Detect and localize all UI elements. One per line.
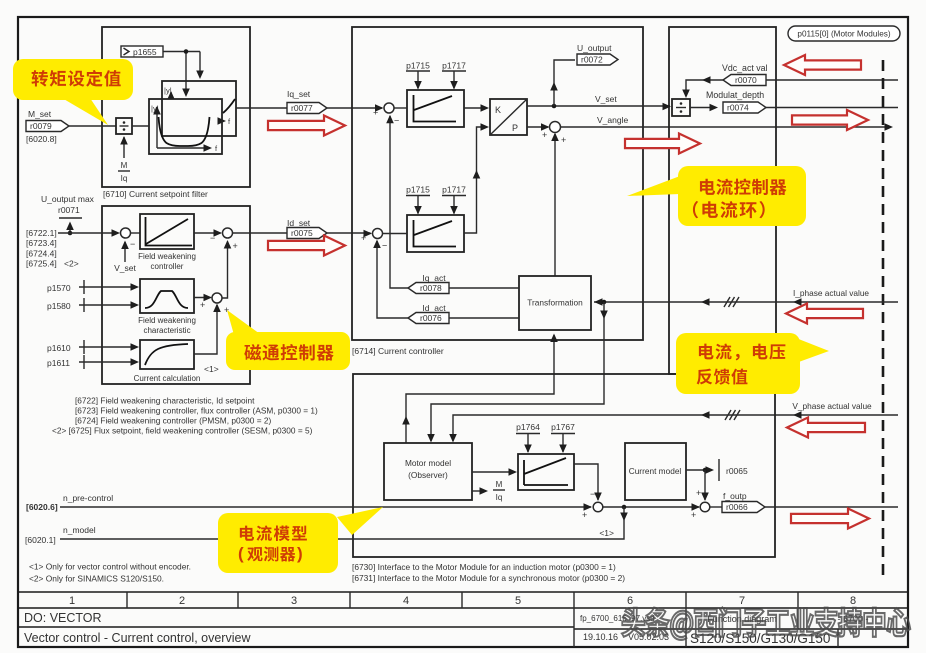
svg-text:r0074: r0074 xyxy=(727,103,749,113)
summing point S6 angle xyxy=(542,122,566,146)
svg-text:r0079: r0079 xyxy=(30,121,52,131)
svg-text:Current model: Current model xyxy=(629,466,682,476)
svg-text:[6723.4]: [6723.4] xyxy=(26,238,57,248)
adaptation block xyxy=(518,454,574,490)
red arrow at Id_set xyxy=(268,236,345,256)
connector p1655 xyxy=(121,46,163,57)
svg-text:3: 3 xyxy=(291,595,297,607)
label p0115[0] motor modules xyxy=(788,26,900,41)
svg-text:V_set: V_set xyxy=(114,263,136,273)
svg-text:Vdc_act val: Vdc_act val xyxy=(722,63,768,73)
connector Vdc_act_val r0070 xyxy=(722,63,768,86)
wire transformation to r0078 to S4 xyxy=(386,115,519,288)
svg-text:I_phase actual value: I_phase actual value xyxy=(793,288,869,298)
summing point S7 xyxy=(593,502,603,512)
svg-text:S120/S150/G130/G150: S120/S150/G130/G150 xyxy=(690,631,830,646)
notes 6730/6731 xyxy=(352,562,625,583)
svg-text:r0070: r0070 xyxy=(735,75,757,85)
block U3 [6714] current controller xyxy=(352,27,643,356)
wire S7 to S8 xyxy=(603,503,700,520)
svg-text:8: 8 xyxy=(850,595,856,607)
svg-text:Field weakening: Field weakening xyxy=(138,316,196,325)
svg-text:p1717: p1717 xyxy=(442,61,466,71)
svg-text:+: + xyxy=(361,233,366,243)
svg-text:+: + xyxy=(373,108,378,118)
svg-text:r0065: r0065 xyxy=(726,466,748,476)
title block xyxy=(18,592,908,647)
svg-text:p1715: p1715 xyxy=(406,185,430,195)
svg-text:[6714] Current controller: [6714] Current controller xyxy=(352,346,444,356)
svg-text:Id_act: Id_act xyxy=(422,303,446,313)
watermark xyxy=(622,607,910,639)
svg-text:7: 7 xyxy=(739,595,745,607)
svg-text:n_model: n_model xyxy=(63,525,96,535)
svg-text:Iq: Iq xyxy=(121,174,128,183)
divider block modulator xyxy=(672,99,690,116)
callout current controller loop xyxy=(627,166,806,226)
svg-text:−: − xyxy=(590,489,595,499)
svg-text:V_phase actual value: V_phase actual value xyxy=(792,401,872,411)
current calculation block xyxy=(134,340,201,383)
transformation block xyxy=(519,276,591,330)
svg-text:Motor model: Motor model xyxy=(405,458,451,468)
svg-text:<2>: <2> xyxy=(64,259,79,269)
wire n_pre-control xyxy=(26,493,592,520)
svg-text:+: + xyxy=(691,510,696,520)
connector U_output r0072 xyxy=(550,43,618,106)
svg-text:−: − xyxy=(394,116,399,126)
wire V_angle from KP xyxy=(527,123,550,131)
wire V_set stub xyxy=(114,241,136,274)
wire I_phase actual value xyxy=(594,288,898,307)
wire PI iq to KP xyxy=(464,104,489,112)
svg-text:p1611: p1611 xyxy=(47,358,70,368)
red arrow at Iq_set xyxy=(268,116,345,136)
svg-text:<2> [6725] Flux setpoint, fiel: <2> [6725] Flux setpoint, field weakenin… xyxy=(52,426,313,436)
connector Iq_act r0078 xyxy=(408,273,449,294)
svg-text:Iq_set: Iq_set xyxy=(287,89,311,99)
svg-text:(Observer): (Observer) xyxy=(408,470,448,480)
wire n_model via switch xyxy=(25,507,628,545)
filter block back (current setpoint filter 2) xyxy=(162,81,236,136)
wire PI id to KP lower input xyxy=(464,123,489,233)
svg-text:Iq: Iq xyxy=(496,493,503,502)
param p1767 xyxy=(551,422,575,453)
red arrow at I_phase xyxy=(786,304,863,324)
notes encoder xyxy=(29,562,191,584)
svg-text:r0076: r0076 xyxy=(420,313,442,323)
field weakening characteristic block xyxy=(138,279,196,335)
connector f_outp r0066 xyxy=(710,491,898,513)
connector Id_act r0076 xyxy=(408,303,449,324)
svg-text:f_outp: f_outp xyxy=(723,491,747,501)
wire current calc to S3 xyxy=(194,304,221,375)
svg-text:U_output: U_output xyxy=(577,43,612,53)
svg-text:19.10.16: 19.10.16 xyxy=(583,632,618,642)
svg-text:Vector control - Current contr: Vector control - Current control, overvi… xyxy=(24,631,251,645)
svg-text:P: P xyxy=(512,123,518,133)
svg-text:+: + xyxy=(582,510,587,520)
param p1717 (id ctrl) xyxy=(442,185,466,215)
svg-text:Transformation: Transformation xyxy=(527,298,583,308)
filter block front (current setpoint filter 1) xyxy=(149,99,222,154)
svg-text:K: K xyxy=(495,105,501,115)
callout torque setpoint xyxy=(13,59,133,125)
wire V_set into divider xyxy=(663,103,672,111)
svg-text:p0115[0] (Motor Modules): p0115[0] (Motor Modules) xyxy=(797,30,890,39)
PI controller block iq xyxy=(407,90,464,127)
svg-text:+: + xyxy=(233,241,238,251)
wire controller to S2 xyxy=(194,229,222,237)
wire I_phase branch to motor model xyxy=(427,302,608,443)
wire Vdc to divider xyxy=(682,76,898,98)
svg-text:Id_set: Id_set xyxy=(287,218,311,228)
svg-text:[6724.4]: [6724.4] xyxy=(26,249,57,259)
callout current model observer xyxy=(218,507,383,573)
wire V_angle out xyxy=(561,115,894,131)
svg-text:n_pre-control: n_pre-control xyxy=(63,493,113,503)
red arrow at V_phase xyxy=(787,418,865,438)
svg-text:p1767: p1767 xyxy=(551,422,575,432)
connector M_set r0079 xyxy=(26,109,69,144)
wire angle from transformation xyxy=(551,133,559,277)
svg-text:f: f xyxy=(228,117,231,126)
svg-text:4: 4 xyxy=(403,595,409,607)
svg-text:+: + xyxy=(561,135,566,145)
wire M_set to divider xyxy=(69,125,116,127)
svg-text:r0071: r0071 xyxy=(58,205,80,215)
svg-text:Iq_act: Iq_act xyxy=(422,273,446,283)
svg-text:[6020.6]: [6020.6] xyxy=(26,502,58,512)
divider block (M over Iq) xyxy=(116,118,132,134)
svg-text:<1>: <1> xyxy=(599,528,614,538)
wire V_phase actual value xyxy=(449,401,898,443)
red arrow at f_outp xyxy=(791,509,869,529)
svg-text:controller: controller xyxy=(151,262,184,271)
param p1717 (iq ctrl) xyxy=(442,61,466,90)
svg-text:[6725.4]: [6725.4] xyxy=(26,259,57,269)
connector Id_set r0075 xyxy=(287,218,327,239)
wire current model output r0065 xyxy=(686,459,748,481)
svg-text:[6020.8]: [6020.8] xyxy=(26,134,57,144)
svg-text:2: 2 xyxy=(179,595,185,607)
wire S1 to controller xyxy=(131,232,141,234)
svg-text:): ) xyxy=(297,544,303,563)
svg-text:p1610: p1610 xyxy=(47,343,71,353)
wire M/Iq input xyxy=(118,136,130,183)
svg-text:[6731] Interface to the Motor: [6731] Interface to the Motor Module for… xyxy=(352,573,625,583)
svg-text:V_set: V_set xyxy=(595,94,617,104)
svg-text:DO: VECTOR: DO: VECTOR xyxy=(24,611,102,625)
labels 6722 refs xyxy=(26,228,79,269)
callout flux controller xyxy=(226,310,350,370)
wire S3 to S2 xyxy=(222,240,231,298)
svg-text:r0078: r0078 xyxy=(420,283,442,293)
svg-text:Field weakening: Field weakening xyxy=(138,252,196,261)
wire Id_set out xyxy=(233,230,373,238)
svg-text:(: ( xyxy=(238,544,244,563)
wire S5 to PI id xyxy=(383,233,408,235)
block U2 field weakening / flux control xyxy=(102,206,250,384)
notes 6722-6725 xyxy=(52,396,318,436)
svg-text:6: 6 xyxy=(627,595,633,607)
svg-text:M_set: M_set xyxy=(28,109,52,119)
svg-text:+: + xyxy=(200,300,205,310)
wire S4 to PI xyxy=(394,107,407,109)
svg-text:<1>: <1> xyxy=(204,364,219,374)
svg-text:p1764: p1764 xyxy=(516,422,540,432)
param p1715 (iq ctrl) xyxy=(406,61,430,90)
param p1715 (id ctrl) xyxy=(406,185,430,215)
svg-text:U_output max: U_output max xyxy=(41,194,95,204)
summing point S4 iq xyxy=(373,103,399,126)
param p1610 xyxy=(47,340,139,354)
svg-text:<2> Only for SINAMICS S120/S1: <2> Only for SINAMICS S120/S150. xyxy=(29,574,164,584)
svg-text:[6710] Current setpoint filter: [6710] Current setpoint filter xyxy=(103,189,208,199)
svg-text:[6730] Interface to the Motor: [6730] Interface to the Motor Module for… xyxy=(352,562,616,572)
svg-text:p1655: p1655 xyxy=(133,47,157,57)
wire current model to S8 xyxy=(696,470,709,501)
field weakening controller block xyxy=(138,214,196,271)
summing point S1 flux xyxy=(121,228,136,249)
svg-text:1: 1 xyxy=(69,595,75,607)
svg-text:p1580: p1580 xyxy=(47,301,71,311)
svg-text:<1> Only for vector control w: <1> Only for vector control without enco… xyxy=(29,562,191,572)
svg-text:+: + xyxy=(696,488,701,498)
param p1570 xyxy=(47,280,139,294)
svg-text:−: − xyxy=(210,233,215,243)
svg-text:r0066: r0066 xyxy=(726,502,748,512)
label U_output max r0071 xyxy=(41,194,95,235)
wire motor model to char block xyxy=(472,468,517,476)
svg-text:f: f xyxy=(215,144,218,153)
wire p1655 to filters xyxy=(163,49,204,97)
dashed boundary line xyxy=(882,60,885,578)
svg-text:M: M xyxy=(496,480,503,489)
summing point S3 xyxy=(212,293,229,315)
K/P polar transform block xyxy=(490,99,527,135)
red arrow at V_angle xyxy=(625,134,700,154)
block U4 motor module interface xyxy=(669,27,776,374)
param p1611 xyxy=(47,355,139,369)
connector Modulat_depth r0074 xyxy=(690,90,898,113)
summing point S2 xyxy=(210,228,238,251)
param p1764 xyxy=(516,422,540,453)
svg-text:p1570: p1570 xyxy=(47,283,71,293)
param p1580 xyxy=(47,298,139,312)
svg-text:V_angle: V_angle xyxy=(597,115,628,125)
svg-text:5: 5 xyxy=(515,595,521,607)
svg-text:[6722] Field weakening charact: [6722] Field weakening characteristic, I… xyxy=(75,396,255,406)
wire transformation to r0076 to S5 xyxy=(373,240,519,319)
svg-text:−: − xyxy=(130,239,135,249)
wire V_set xyxy=(527,94,670,108)
svg-text:p1715: p1715 xyxy=(406,61,430,71)
svg-text:M: M xyxy=(121,161,128,170)
wire divider to filter xyxy=(132,125,149,127)
svg-text:r0075: r0075 xyxy=(291,228,313,238)
connector Iq_set r0077 xyxy=(287,89,327,114)
summing point S8 xyxy=(700,502,710,512)
wire adaptation to S7 xyxy=(574,464,602,501)
svg-text:−: − xyxy=(382,241,387,251)
svg-text:p1717: p1717 xyxy=(442,185,466,195)
current model block xyxy=(625,443,686,500)
wire motor model to transformation xyxy=(402,334,558,444)
callout current voltage feedback xyxy=(676,333,829,394)
block U1 [6710] current setpoint filter xyxy=(102,27,250,199)
block U5 [6730][6731] motor module interface xyxy=(353,374,775,557)
svg-text:r0077: r0077 xyxy=(291,103,313,113)
wire filter output / Iq_set xyxy=(236,104,384,112)
wire characteristic to S3 xyxy=(194,294,212,310)
svg-text:Current calculation: Current calculation xyxy=(134,374,201,383)
svg-text:r0072: r0072 xyxy=(581,55,603,65)
svg-text:characteristic: characteristic xyxy=(143,326,190,335)
red arrow at modulat xyxy=(792,110,868,130)
svg-text:[6020.1]: [6020.1] xyxy=(25,535,56,545)
wire u_output max line xyxy=(58,229,120,237)
svg-text:+: + xyxy=(542,130,547,140)
wire M/Iq output label xyxy=(472,480,505,502)
motor model observer block xyxy=(384,443,472,500)
svg-text:Modulat_depth: Modulat_depth xyxy=(706,90,764,100)
PI controller block id xyxy=(407,215,464,252)
svg-text:[6724] Field weakening control: [6724] Field weakening controller (PMSM,… xyxy=(75,416,271,426)
svg-text:[6722.1]: [6722.1] xyxy=(26,228,57,238)
summing point S5 id xyxy=(361,229,387,251)
red arrow at Vdc xyxy=(784,55,861,75)
svg-text:[6723] Field weakening control: [6723] Field weakening controller, flux … xyxy=(75,406,318,416)
